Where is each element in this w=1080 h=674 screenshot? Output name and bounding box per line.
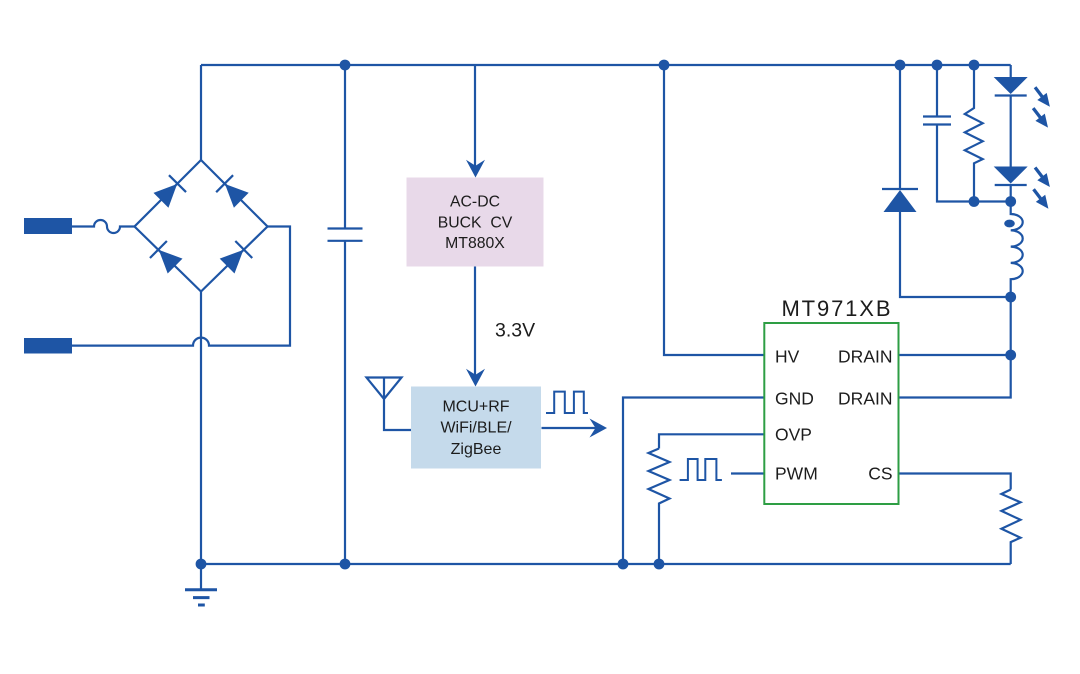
wire CS net xyxy=(899,474,1011,490)
bridge rectifier diamond xyxy=(135,160,268,292)
svg-text:GND: GND xyxy=(775,389,814,409)
svg-text:MCU+RF: MCU+RF xyxy=(442,398,509,415)
svg-text:BUCK CV: BUCK CV xyxy=(438,215,513,232)
svg-text:3.3V: 3.3V xyxy=(495,319,535,341)
antenna ANT1 xyxy=(367,378,412,431)
diode D5 xyxy=(884,190,917,212)
diode D5 branch xyxy=(882,65,1011,297)
LED2 emission arrows xyxy=(1030,164,1054,191)
wire AC input 2 with hop xyxy=(72,227,290,346)
diode D1 xyxy=(152,175,186,209)
wire DRAIN1 net xyxy=(899,354,1011,356)
arrow MCU output xyxy=(542,427,600,429)
LED1 emission arrows xyxy=(1030,84,1054,111)
svg-text:AC-DC: AC-DC xyxy=(450,193,500,210)
wire OVP net xyxy=(659,434,764,448)
pulse waveform W2 xyxy=(680,459,722,480)
svg-text:MT880X: MT880X xyxy=(445,235,505,252)
wire PWM stub xyxy=(731,472,764,474)
diode D2 xyxy=(216,175,250,209)
wire bottom bus xyxy=(201,563,1011,565)
wire DRAIN2 net xyxy=(899,297,1011,398)
capacitor C1 xyxy=(328,65,363,564)
inductor L1 xyxy=(1011,202,1023,298)
block AC-DC BUCK CV MT880X xyxy=(407,178,544,267)
pulse waveform W1 xyxy=(546,392,588,413)
wire top bus xyxy=(201,64,1011,66)
terminal AC input 2 xyxy=(24,338,72,354)
svg-text:PWM: PWM xyxy=(775,464,818,484)
arrowhead into AC-DC xyxy=(466,160,485,178)
svg-text:MT971XB: MT971XB xyxy=(782,296,891,321)
terminal AC input 1 xyxy=(24,218,72,234)
arrowhead MCU output xyxy=(590,419,608,438)
svg-text:DRAIN: DRAIN xyxy=(838,389,892,409)
wire bridge top riser xyxy=(200,65,202,160)
wire to AC-DC block xyxy=(474,65,476,170)
svg-text:CS: CS xyxy=(868,464,892,484)
resistor R3 xyxy=(1001,490,1020,565)
LED2 xyxy=(994,167,1028,184)
diode D3 xyxy=(150,241,184,275)
wire AC-DC to MCU xyxy=(474,267,476,380)
svg-text:ZigBee: ZigBee xyxy=(451,441,502,458)
op IC U1 MT971XB box xyxy=(764,323,898,504)
resistor R2 xyxy=(965,65,983,202)
LED string wire xyxy=(995,65,1027,202)
resistor R1 xyxy=(649,449,670,565)
wire GND net xyxy=(623,398,764,565)
arrowhead into MCU xyxy=(466,369,485,387)
svg-text:OVP: OVP xyxy=(775,424,812,444)
wire HV net xyxy=(664,65,764,355)
inductor L1 polarity dot xyxy=(1004,220,1015,228)
fuse F1 xyxy=(72,220,135,233)
diode D4 xyxy=(219,241,253,275)
svg-text:DRAIN: DRAIN xyxy=(838,346,892,366)
svg-text:WiFi/BLE/: WiFi/BLE/ xyxy=(440,419,512,436)
wire bridge bottom drop xyxy=(200,292,202,565)
capacitor C2 xyxy=(923,65,1011,202)
LED1 xyxy=(994,77,1028,94)
svg-text:HV: HV xyxy=(775,346,800,366)
ground xyxy=(185,564,217,605)
junction dots xyxy=(340,60,351,71)
block MCU+RF xyxy=(411,387,541,469)
